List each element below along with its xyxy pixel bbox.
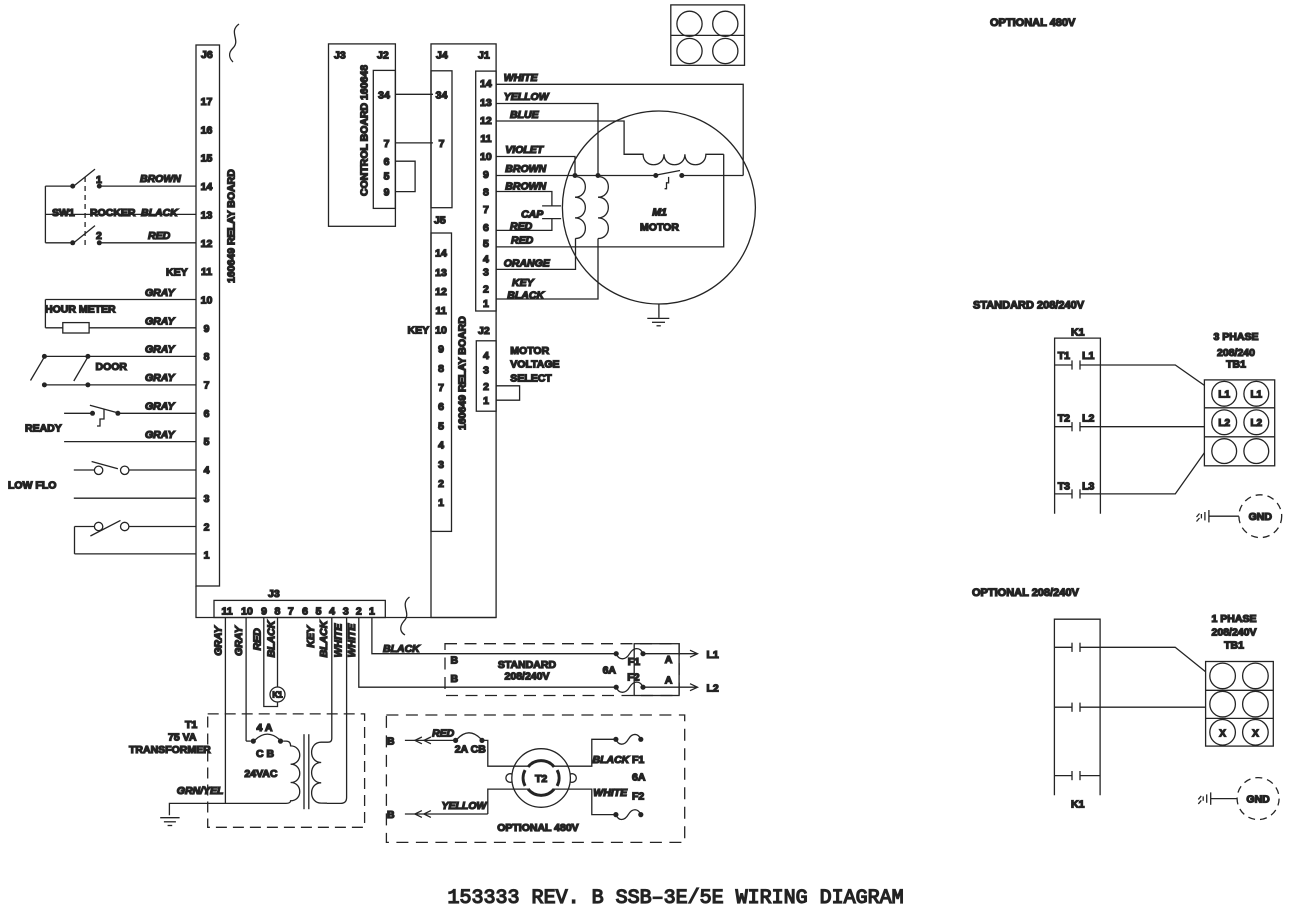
wire K1 L3 to TB1	[1100, 453, 1204, 494]
svg-text:2: 2	[96, 230, 102, 242]
svg-text:L1: L1	[707, 649, 719, 661]
svg-text:1: 1	[96, 174, 102, 186]
ground GND (optional)	[1198, 778, 1279, 820]
svg-text:WHITE: WHITE	[593, 787, 628, 799]
wire J2-7 to J4-7	[395, 142, 433, 144]
svg-text:14: 14	[480, 78, 492, 90]
svg-text:L2: L2	[1218, 418, 1230, 429]
svg-text:153333 REV. B SSB–3E/5E WIRING: 153333 REV. B SSB–3E/5E WIRING DIAGRAM	[448, 887, 904, 910]
wire K1 L1 to TB1	[1100, 365, 1204, 385]
connector J4	[431, 71, 452, 208]
contactor K1 (standard)	[1055, 326, 1101, 514]
svg-text:F1: F1	[628, 656, 640, 668]
svg-text:16: 16	[201, 124, 213, 136]
svg-text:GRAY: GRAY	[233, 625, 245, 656]
jumper J2 pins 6-9	[395, 161, 415, 191]
wire K1 to TB1 row2 (optional)	[1100, 706, 1206, 708]
svg-text:YELLOW: YELLOW	[442, 800, 488, 812]
wire J1-1 key black	[496, 239, 598, 302]
svg-text:SELECT: SELECT	[510, 373, 552, 385]
wire J1-9 brown	[496, 163, 656, 176]
svg-text:OPTIONAL 480V: OPTIONAL 480V	[990, 17, 1076, 29]
svg-text:10: 10	[241, 606, 253, 618]
svg-text:GRAY: GRAY	[145, 315, 176, 327]
svg-text:11: 11	[201, 266, 212, 278]
svg-text:K1: K1	[1071, 326, 1085, 338]
svg-text:J4: J4	[436, 50, 448, 62]
svg-text:7: 7	[439, 138, 445, 150]
svg-text:GRAY: GRAY	[145, 400, 176, 412]
svg-text:7: 7	[438, 382, 444, 394]
svg-text:RED: RED	[148, 230, 171, 242]
wire J2-34 to J4-34	[395, 93, 433, 95]
svg-text:WHITE: WHITE	[333, 623, 345, 658]
svg-text:10: 10	[435, 324, 447, 336]
svg-text:STANDARD: STANDARD	[498, 659, 557, 671]
transformer T2	[506, 749, 576, 808]
motor ground	[647, 304, 669, 326]
svg-text:WHITE: WHITE	[504, 72, 539, 84]
svg-text:BROWN: BROWN	[505, 163, 546, 175]
svg-text:2A CB: 2A CB	[455, 744, 487, 756]
wire K1 to TB1 row1 (optional)	[1100, 647, 1206, 671]
svg-text:C B: C B	[256, 748, 275, 760]
wire J3-10 gray	[233, 618, 246, 742]
svg-text:CAP: CAP	[521, 209, 544, 221]
wire J6 left edge down to J3 bottom rail	[196, 586, 496, 618]
connector J6 box	[196, 45, 220, 586]
svg-text:3 PHASE: 3 PHASE	[1214, 331, 1259, 343]
svg-text:TB1: TB1	[1226, 359, 1246, 371]
svg-text:160649 RELAY BOARD: 160649 RELAY BOARD	[457, 316, 469, 430]
svg-text:ORANGE: ORANGE	[504, 257, 551, 269]
svg-text:KEY: KEY	[512, 277, 535, 289]
svg-text:6: 6	[438, 401, 444, 413]
wire J3-4 key black	[305, 618, 332, 743]
svg-text:4: 4	[329, 606, 335, 618]
svg-text:GRAY: GRAY	[145, 287, 176, 299]
connector J1	[476, 71, 496, 311]
svg-text:12: 12	[435, 286, 447, 298]
wire pin5	[64, 441, 196, 443]
svg-text:J5: J5	[434, 215, 446, 227]
svg-text:LOW FLO: LOW FLO	[8, 479, 56, 491]
svg-text:15: 15	[201, 153, 213, 165]
transformer T1 primary	[283, 741, 300, 803]
svg-text:34: 34	[436, 89, 448, 101]
svg-text:J2: J2	[377, 50, 389, 62]
contactor K1 (optional)	[1054, 619, 1100, 810]
connector J5	[408, 215, 452, 532]
svg-text:BLACK: BLACK	[265, 619, 277, 657]
svg-text:6: 6	[302, 606, 308, 618]
wire GRN/YEL + ground	[160, 785, 283, 826]
wire T2 to F2 white	[553, 787, 628, 815]
svg-text:7: 7	[483, 204, 489, 216]
svg-text:6: 6	[483, 222, 489, 234]
svg-text:6A: 6A	[603, 665, 617, 677]
svg-text:8: 8	[483, 187, 489, 199]
svg-text:GRAY: GRAY	[145, 344, 176, 356]
svg-text:5: 5	[204, 436, 210, 448]
svg-text:4: 4	[483, 350, 489, 362]
svg-text:B: B	[451, 655, 459, 667]
svg-text:X: X	[1252, 728, 1259, 739]
svg-text:1 PHASE: 1 PHASE	[1212, 613, 1257, 625]
svg-text:B: B	[387, 735, 395, 747]
wire J1-10 violet	[496, 144, 575, 173]
svg-text:TRANSFORMER: TRANSFORMER	[129, 744, 211, 756]
motor start winding (top)	[625, 154, 724, 164]
svg-text:5: 5	[316, 606, 322, 618]
wire T2 to F1 black	[553, 739, 631, 766]
svg-text:14: 14	[201, 181, 213, 193]
jumper J2 pins 2-1	[496, 386, 519, 400]
svg-text:J1: J1	[478, 50, 490, 62]
svg-text:OPTIONAL 208/240V: OPTIONAL 208/240V	[972, 587, 1079, 599]
svg-text:7: 7	[204, 380, 210, 392]
svg-text:24VAC: 24VAC	[244, 768, 277, 780]
svg-text:OPTIONAL 480V: OPTIONAL 480V	[497, 822, 579, 834]
switch SW1 rocker	[45, 169, 196, 249]
svg-text:9: 9	[261, 606, 267, 618]
wire J1-3 orange	[496, 239, 575, 270]
svg-text:L1: L1	[1082, 350, 1094, 362]
svg-text:14: 14	[435, 248, 447, 260]
svg-text:2: 2	[483, 381, 489, 393]
transformer T1 dashed box	[129, 714, 365, 827]
svg-text:5: 5	[483, 238, 489, 250]
svg-text:1: 1	[369, 606, 375, 618]
svg-text:T1: T1	[1058, 350, 1070, 362]
optional 480V dashed box	[386, 715, 684, 842]
svg-text:2: 2	[356, 606, 362, 618]
svg-text:T1: T1	[185, 719, 197, 731]
wire J3-3 white	[327, 618, 347, 804]
relay board 160649 outer box	[431, 44, 496, 618]
svg-text:4: 4	[204, 465, 210, 477]
standard 208/240V fuse box	[445, 644, 679, 696]
wire J3-8 black	[265, 618, 277, 688]
wire B red (480V in)	[387, 728, 456, 748]
svg-text:VIOLET: VIOLET	[505, 144, 545, 156]
svg-text:J6: J6	[201, 49, 213, 61]
svg-text:J3: J3	[268, 588, 280, 600]
svg-text:1: 1	[483, 395, 489, 407]
svg-text:HOUR METER: HOUR METER	[45, 304, 116, 316]
svg-text:L3: L3	[1082, 480, 1094, 492]
svg-text:BLACK: BLACK	[593, 754, 631, 766]
svg-text:8: 8	[438, 363, 444, 375]
svg-text:10: 10	[201, 295, 213, 307]
svg-text:9: 9	[384, 187, 390, 199]
svg-text:F1: F1	[632, 754, 644, 766]
svg-text:9: 9	[204, 323, 210, 335]
hour meter	[45, 300, 196, 334]
svg-text:K1: K1	[272, 691, 283, 700]
fuse F2	[614, 682, 646, 692]
svg-text:J3: J3	[334, 50, 346, 62]
svg-text:12: 12	[201, 238, 213, 250]
svg-text:BLACK: BLACK	[141, 207, 179, 219]
svg-text:3: 3	[483, 267, 489, 279]
svg-text:3: 3	[438, 459, 444, 471]
wire pin1	[75, 553, 197, 555]
svg-text:READY: READY	[25, 423, 62, 435]
wire J1-8 brown	[496, 181, 552, 206]
svg-text:BLUE: BLUE	[510, 109, 540, 121]
transformer T1 core	[304, 734, 309, 809]
svg-text:13: 13	[480, 97, 492, 109]
svg-text:TB1: TB1	[1224, 640, 1244, 652]
capacitor CAP	[496, 206, 561, 233]
centrifugal switch	[653, 171, 743, 189]
break squiggle above J6	[230, 24, 239, 62]
svg-text:2: 2	[483, 283, 489, 295]
svg-text:13: 13	[201, 209, 213, 221]
terminal block TB1 (3 phase)	[1204, 331, 1274, 466]
svg-text:3: 3	[483, 365, 489, 377]
ground GND (standard)	[1197, 495, 1282, 538]
wire CB to T2	[482, 740, 530, 766]
terminal block (top)	[671, 5, 745, 65]
svg-text:BROWN: BROWN	[140, 173, 181, 185]
svg-text:11: 11	[480, 133, 491, 145]
svg-text:T2: T2	[1058, 413, 1070, 425]
svg-text:5: 5	[384, 171, 390, 183]
svg-text:RED: RED	[510, 221, 533, 233]
svg-text:STANDARD 208/240V: STANDARD 208/240V	[973, 299, 1085, 311]
svg-text:KEY: KEY	[305, 625, 317, 648]
svg-text:BROWN: BROWN	[505, 181, 546, 193]
connector J3 (relay board bottom)	[214, 588, 385, 618]
wire J3-1 black	[372, 618, 616, 656]
svg-text:K1: K1	[1071, 799, 1085, 811]
breaker 2A CB	[453, 733, 486, 756]
svg-text:4: 4	[438, 440, 444, 452]
transformer T1 secondary	[312, 742, 328, 803]
label MOTOR VOLTAGE SELECT	[510, 345, 559, 385]
svg-text:F2: F2	[632, 791, 644, 803]
svg-text:WHITE: WHITE	[346, 623, 358, 658]
motor M1 circle	[562, 111, 755, 304]
svg-text:3: 3	[204, 493, 210, 505]
svg-text:T3: T3	[1058, 480, 1070, 492]
break squiggle right of J3	[401, 597, 410, 635]
svg-text:208/240: 208/240	[1217, 347, 1255, 359]
svg-text:CONTROL BOARD 160648: CONTROL BOARD 160648	[358, 65, 370, 196]
svg-text:T2: T2	[535, 773, 547, 785]
svg-text:GRN/YEL: GRN/YEL	[177, 785, 224, 797]
svg-text:B: B	[387, 809, 395, 821]
switch LOW FLO (pin4)	[8, 462, 196, 492]
svg-text:BLACK: BLACK	[383, 643, 421, 655]
svg-text:L2: L2	[707, 683, 719, 695]
svg-text:MOTOR: MOTOR	[640, 222, 679, 234]
wire J1-12 blue	[496, 109, 643, 154]
svg-text:208/240V: 208/240V	[505, 671, 550, 683]
label 160649 RELAY BOARD (J6)	[226, 169, 238, 283]
svg-text:75 VA: 75 VA	[168, 732, 197, 744]
svg-text:6: 6	[384, 156, 390, 168]
svg-text:MOTOR: MOTOR	[510, 345, 549, 357]
wire J3-2 white	[346, 618, 616, 688]
svg-text:BLACK: BLACK	[318, 619, 330, 657]
wire J3-9 red	[252, 618, 278, 707]
control board 160648	[329, 44, 396, 226]
svg-text:7: 7	[384, 138, 390, 150]
breaker C B 4A	[244, 722, 283, 780]
svg-text:J2: J2	[478, 325, 490, 337]
svg-text:B: B	[451, 673, 459, 685]
svg-text:RED: RED	[432, 728, 455, 740]
svg-text:KEY: KEY	[166, 267, 188, 279]
svg-text:GRAY: GRAY	[145, 372, 176, 384]
switch DOOR	[31, 354, 197, 388]
svg-text:GRAY: GRAY	[213, 625, 225, 656]
svg-text:7: 7	[288, 606, 294, 618]
svg-text:12: 12	[480, 115, 492, 127]
svg-text:160649 RELAY BOARD: 160649 RELAY BOARD	[226, 169, 238, 283]
wire J1-14 white	[496, 72, 743, 176]
svg-text:8: 8	[274, 606, 280, 618]
svg-text:17: 17	[201, 96, 213, 108]
svg-text:GND: GND	[1246, 794, 1270, 806]
svg-text:5: 5	[438, 420, 444, 432]
switch (pin2 flow)	[75, 520, 197, 554]
wire to L1 arrow	[643, 649, 719, 661]
svg-text:L2: L2	[1250, 418, 1262, 429]
svg-text:3: 3	[343, 606, 349, 618]
terminal block TB1 (1 phase)	[1206, 613, 1274, 746]
svg-text:4: 4	[483, 254, 489, 266]
svg-text:X: X	[1219, 728, 1226, 739]
svg-text:YELLOW: YELLOW	[504, 91, 550, 103]
svg-text:L2: L2	[1082, 413, 1094, 425]
svg-text:RED: RED	[511, 235, 534, 247]
fuse F1 (480V)	[613, 734, 646, 783]
fuse F1	[614, 649, 646, 659]
svg-text:L1: L1	[1250, 389, 1262, 400]
svg-text:10: 10	[480, 151, 492, 163]
svg-text:ROCKER: ROCKER	[90, 207, 136, 219]
svg-text:8: 8	[204, 351, 210, 363]
svg-text:11: 11	[435, 305, 446, 317]
wire pin3	[74, 497, 196, 499]
svg-text:6: 6	[204, 408, 210, 420]
svg-text:RED: RED	[252, 628, 264, 651]
svg-text:1: 1	[438, 497, 444, 509]
svg-text:2: 2	[438, 478, 444, 490]
svg-text:VOLTAGE: VOLTAGE	[510, 359, 559, 371]
svg-text:208/240V: 208/240V	[1212, 627, 1257, 639]
svg-text:9: 9	[483, 169, 489, 181]
svg-text:1: 1	[204, 550, 210, 562]
svg-text:A: A	[665, 675, 673, 687]
svg-text:KEY: KEY	[408, 324, 430, 336]
svg-text:9: 9	[438, 344, 444, 356]
svg-text:13: 13	[435, 267, 447, 279]
wire to L2 arrow	[643, 683, 719, 695]
svg-text:DOOR: DOOR	[96, 361, 128, 373]
svg-text:34: 34	[378, 89, 390, 101]
svg-text:L1: L1	[1218, 389, 1230, 400]
relay K1 coil	[270, 687, 285, 702]
svg-text:GRAY: GRAY	[145, 429, 176, 441]
svg-text:GND: GND	[1249, 511, 1273, 523]
wire K1 L2 to TB1	[1100, 426, 1204, 428]
fuse F2 (480V)	[613, 791, 644, 820]
wire J1-5 red	[496, 154, 724, 247]
svg-text:4 A: 4 A	[257, 722, 273, 734]
svg-text:2: 2	[204, 521, 210, 533]
svg-text:6A: 6A	[632, 772, 646, 784]
connector J2 (motor voltage select)	[476, 325, 496, 411]
motor main winding right	[596, 173, 609, 239]
svg-text:1: 1	[483, 298, 489, 310]
motor main winding left	[573, 173, 586, 239]
wire B yellow (480V in)	[387, 789, 530, 821]
svg-text:A: A	[665, 654, 673, 666]
wire J3-11 gray	[213, 618, 226, 804]
switch READY	[25, 405, 196, 434]
svg-text:M1: M1	[652, 207, 667, 219]
svg-text:11: 11	[221, 606, 232, 618]
svg-text:SW1: SW1	[52, 207, 75, 219]
svg-text:BLACK: BLACK	[507, 289, 545, 301]
wire J1-13 yellow	[496, 91, 598, 173]
